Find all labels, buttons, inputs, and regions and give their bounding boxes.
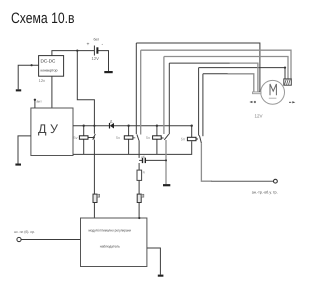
svg-text:DC-DC: DC-DC [41, 59, 56, 64]
svg-text:вх. по (б). пр.: вх. по (б). пр. [14, 230, 35, 234]
svg-text:модул/оптимално регулирани: модул/оптимално регулирани [89, 229, 132, 233]
svg-text:12V: 12V [255, 114, 263, 119]
svg-text:ант: ант [37, 100, 43, 104]
svg-text:5v: 5v [116, 136, 120, 140]
svg-text:12V: 12V [92, 56, 100, 61]
svg-text:5v: 5v [146, 136, 150, 140]
svg-text:5v: 5v [74, 136, 78, 140]
svg-text:конвертор: конвертор [41, 69, 58, 73]
svg-text:бат: бат [94, 38, 100, 42]
svg-text:сб: сб [141, 155, 145, 159]
svg-text:5V: 5V [181, 138, 186, 142]
svg-text:наблюдатель: наблюдатель [100, 245, 120, 249]
svg-text:Схема 10.в: Схема 10.в [11, 10, 75, 27]
svg-text:+: + [87, 42, 90, 48]
svg-text:ан.-тр.-об.у. тр.: ан.-тр.-об.у. тр. [252, 190, 278, 194]
svg-text:12v: 12v [39, 78, 45, 83]
svg-text:Д У: Д У [38, 122, 58, 136]
